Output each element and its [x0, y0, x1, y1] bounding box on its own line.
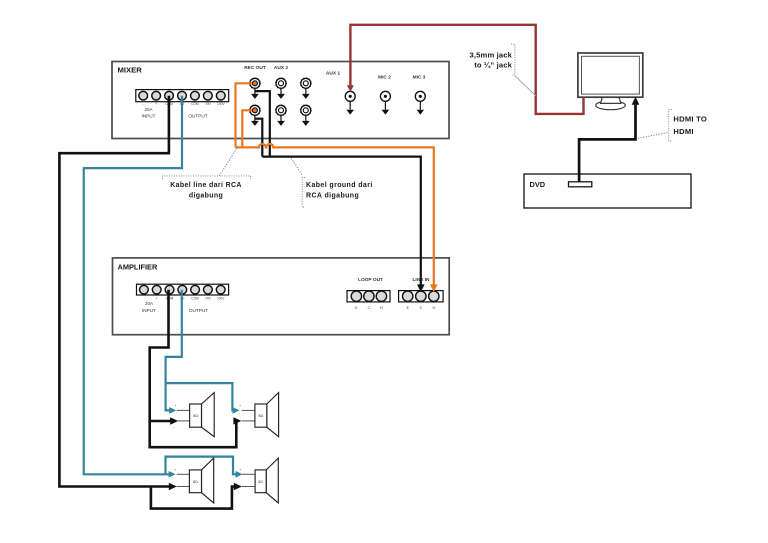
speaker 1 (row1 left) [173, 393, 214, 437]
svg-text:20A: 20A [145, 301, 153, 306]
svg-text:MIXER: MIXER [118, 66, 143, 75]
monitor body [578, 53, 643, 97]
svg-text:OUTPUT: OUTPUT [188, 114, 207, 119]
jack REC OUT upper [249, 78, 260, 99]
strip pin labels E C H [355, 306, 383, 310]
svg-text:AUX 1: AUX 1 [326, 71, 340, 77]
svg-text:MIC 3: MIC 3 [413, 75, 426, 81]
speaker 3 (row2 left) [173, 458, 214, 503]
svg-text:HDMI: HDMI [673, 127, 693, 136]
mixer box [112, 62, 449, 139]
wire black amplifier output to speaker row1 [150, 290, 179, 425]
svg-text:+: + [239, 404, 241, 408]
jack MIC 2 [380, 91, 390, 114]
mixer strip pin labels [143, 102, 226, 106]
svg-text:AMPLIFIER: AMPLIFIER [118, 263, 158, 272]
svg-text:3,5mm jack: 3,5mm jack [470, 51, 513, 60]
svg-text:RCA digabung: RCA digabung [306, 193, 359, 200]
svg-text:8Ω: 8Ω [193, 480, 198, 484]
amplifier strip pin labels [143, 297, 225, 301]
svg-text:8Ω: 8Ω [258, 480, 263, 484]
DVD player box [524, 174, 691, 208]
jack MIC 3 [415, 91, 425, 114]
callout kabel line dari RCA digabung [163, 149, 251, 200]
svg-text:DVD: DVD [530, 180, 546, 189]
amplifier box [113, 258, 450, 335]
wire black mixer output to speaker row2 [59, 96, 176, 491]
wire teal row1 branch to speaker 2 [166, 383, 240, 414]
wire black row1 loop to speaker 2 [150, 417, 242, 447]
jack AUX 2 col1 lower [276, 105, 287, 126]
svg-text:+: + [174, 404, 176, 408]
callout 3.5mm jack to 1/4 jack [470, 44, 536, 96]
svg-text:Kabel ground dari: Kabel ground dari [306, 182, 373, 189]
wire orange RCA line joined to LINE IN H [236, 144, 438, 292]
svg-text:OUTPUT: OUTPUT [189, 308, 208, 313]
svg-text:+: + [239, 468, 241, 472]
terminal strip (amplifier power/output) [137, 284, 229, 295]
jack AUX 2 col2 lower [300, 105, 311, 126]
mixer 20A INPUT label [141, 107, 155, 119]
svg-text:-: - [143, 297, 144, 301]
svg-text:100V: 100V [217, 297, 225, 301]
svg-text:+: + [156, 297, 158, 301]
wire orange RCA line lower tap [242, 110, 252, 147]
svg-text:8Ω: 8Ω [193, 414, 198, 418]
strip pin labels E C H [407, 306, 436, 310]
svg-text:70V: 70V [205, 297, 212, 301]
svg-text:AUX 2: AUX 2 [274, 65, 288, 71]
svg-text:HDMI TO: HDMI TO [673, 114, 707, 123]
svg-text:LOOP OUT: LOOP OUT [358, 277, 383, 283]
jack AUX 2 col1 upper [276, 78, 287, 99]
wire teal row2 branch to speaker 4 [166, 457, 243, 478]
jack AUX 1 [345, 91, 355, 114]
jack REC OUT lower [249, 105, 260, 126]
svg-text:20A: 20A [144, 107, 152, 112]
svg-text:+: + [174, 468, 176, 472]
svg-text:INPUT: INPUT [142, 308, 156, 313]
LINE IN strip [399, 291, 444, 302]
monitor stand base [596, 101, 626, 110]
svg-text:8Ω: 8Ω [259, 414, 264, 418]
svg-text:to ¼” jack: to ¼” jack [474, 60, 512, 69]
svg-text:Kabel line dari RCA: Kabel line dari RCA [170, 182, 242, 189]
DVD slot [569, 182, 592, 187]
svg-text:REC OUT: REC OUT [244, 65, 266, 71]
wire black RCA ground joined to LINE IN C [262, 157, 424, 293]
wire black row2 loop to speaker 4 [151, 483, 242, 509]
callout kabel ground dari RCA digabung [291, 158, 373, 207]
wire maroon AUX1 to monitor (3.5mm jack) [347, 25, 584, 114]
wire black RCA ground upper tap [255, 91, 270, 157]
speaker 4 (row2 right) [238, 458, 278, 503]
LOOP OUT strip [347, 291, 390, 302]
wire teal mixer output to speaker row2 [84, 96, 182, 478]
wire orange RCA line upper tap [236, 83, 253, 147]
monitor screen [582, 56, 640, 94]
speaker 2 (row1 right) [238, 393, 279, 437]
jack AUX 2 col2 upper [300, 78, 311, 99]
svg-text:+: + [155, 102, 157, 106]
monitor stand neck [601, 97, 621, 103]
amplifier 20A INPUT label [142, 301, 156, 313]
callout HDMI TO HDMI [638, 110, 707, 142]
wire HDMI DVD to monitor [579, 97, 639, 182]
svg-text:MIC 2: MIC 2 [378, 75, 391, 81]
svg-text:-: - [143, 102, 144, 106]
terminal strip (mixer power/output) [136, 90, 229, 102]
svg-text:COM: COM [191, 102, 199, 106]
svg-text:COM: COM [191, 297, 199, 301]
wire black RCA ground lower tap [255, 119, 262, 157]
svg-text:digabung: digabung [189, 193, 223, 200]
svg-text:100V: 100V [217, 102, 225, 106]
svg-text:INPUT: INPUT [141, 114, 155, 119]
svg-text:70V: 70V [205, 102, 212, 106]
wire teal amplifier output to speaker row1 [166, 290, 182, 414]
